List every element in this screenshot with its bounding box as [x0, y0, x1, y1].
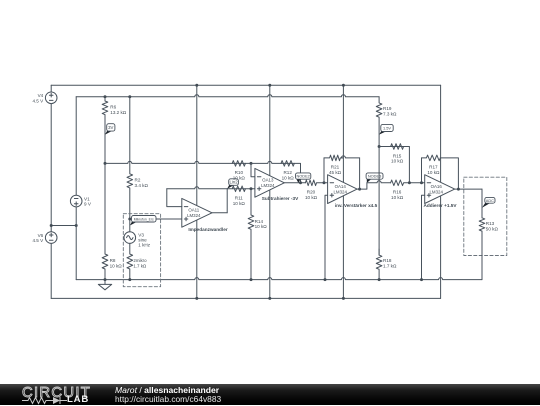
vertical rail D x=440.6 right edge, top bus corner to bottom bus corner — [440, 85, 442, 298]
wire OA16 output to ADC branch — [455, 188, 482, 190]
svg-text:R6: R6 — [110, 104, 116, 109]
op-amp OA14 LM324 triangle — [328, 175, 358, 204]
junction dot 2mikro bottom on mid bus — [128, 278, 131, 281]
label R18 — [383, 258, 397, 268]
wire OA11 output to riser — [212, 212, 227, 214]
label V4 — [32, 93, 44, 103]
resistor R11 10k horizontal — [227, 186, 245, 192]
resistor R8 10k vertical at x=105 from 3V node — [102, 163, 108, 279]
junction dot OA14 plus on mid bus — [324, 278, 327, 281]
junction dot at (51.2,225.5) — [50, 224, 53, 227]
svg-text:10 kΩ: 10 kΩ — [305, 195, 318, 200]
wire OA14 minus node to input — [324, 182, 328, 184]
wire OA11 feedback top run y=188.8 with hop at rail A — [167, 187, 227, 189]
junction dot R15 drop on R16 line — [408, 181, 411, 184]
label inv. Verstaerker — [335, 203, 378, 208]
svg-text:LM324: LM324 — [261, 183, 275, 188]
label R21 — [329, 165, 342, 175]
vertical rail A x=196.8 from top bus to bottom bus — [196, 85, 198, 298]
svg-text:4.5 V: 4.5 V — [32, 98, 44, 103]
wire V4 bottom to V6 top — [50, 104, 52, 232]
svg-text:3V: 3V — [108, 125, 113, 130]
label OA16 LM324 — [429, 184, 443, 194]
svg-text:R13: R13 — [486, 221, 495, 226]
label R15 — [391, 153, 404, 163]
resistor R13 50k vertical — [479, 213, 485, 280]
wire V1 column x=76.2: bus2top corner down to V1 top — [75, 97, 77, 196]
svg-text:R21: R21 — [331, 165, 340, 170]
wire mic node to op-amp U1 plus input, y=219 — [130, 218, 182, 220]
label Subtrahierer -3V — [262, 196, 299, 201]
label OA14 LM324 — [333, 184, 347, 194]
microphone equivalent dashed box — [123, 214, 160, 287]
svg-text:45 kΩ: 45 kΩ — [329, 170, 342, 175]
label V3 — [138, 233, 150, 248]
svg-text:NODE2: NODE2 — [296, 174, 309, 179]
svg-text:10 kΩ: 10 kΩ — [110, 264, 123, 269]
junction dot R14 bottom — [250, 278, 253, 281]
svg-text:10 kΩ: 10 kΩ — [233, 176, 246, 181]
label Addierer +1.5V — [424, 203, 458, 208]
svg-text:9 V: 9 V — [84, 202, 92, 207]
svg-text:10 kΩ: 10 kΩ — [427, 170, 440, 175]
svg-text:1.7 kΩ: 1.7 kΩ — [133, 264, 147, 269]
url text — [115, 394, 221, 404]
svg-text:R12: R12 — [283, 170, 292, 175]
svg-text:R17: R17 — [429, 165, 438, 170]
label Impedanzwandler — [188, 227, 228, 232]
label R14 — [255, 219, 268, 229]
junction dot R2 top on bus2 — [128, 95, 131, 98]
svg-text:R20: R20 — [307, 190, 316, 195]
resistor R17 10k horizontal feedback — [422, 155, 441, 161]
junction dot rail B top — [268, 84, 271, 87]
svg-text:1.7 kΩ: 1.7 kΩ — [383, 263, 397, 268]
resistor R6 13.2k vertical at x=105 — [102, 97, 108, 164]
CircuitLab logo LAB — [67, 394, 89, 405]
credit text — [115, 385, 219, 395]
junction dot OA16 plus on mid bus — [420, 278, 423, 281]
junction dot (251,163.4) — [250, 162, 253, 165]
label V1 — [84, 196, 92, 206]
label OA11 LM324 — [187, 208, 201, 218]
junction dot R17 tap — [420, 181, 423, 184]
wire R10 to junction — [245, 162, 251, 164]
resistor R12 10k horizontal — [281, 161, 294, 167]
label OA13 LM324 — [261, 178, 275, 188]
wire R12 right corner down to output — [294, 163, 300, 182]
svg-text:OA16: OA16 — [431, 184, 443, 189]
wire ADC branch down — [481, 189, 483, 218]
voltage source V4 4.5V (plus top) — [45, 92, 57, 104]
wire R21 corner down to output — [359, 158, 361, 189]
svg-text:Impedanzwandler: Impedanzwandler — [188, 227, 228, 232]
ADC dashed box — [464, 177, 507, 255]
junction dot R6 top on bus2 — [104, 95, 107, 98]
svg-text:Mikrofon_Ers: Mikrofon_Ers — [134, 217, 154, 221]
svg-text:R10: R10 — [235, 170, 244, 175]
label V6 — [32, 233, 44, 243]
label R20 — [305, 190, 318, 200]
label R16 — [391, 190, 404, 200]
svg-text:1 kHz: 1 kHz — [138, 243, 150, 248]
wire OA13 output run y=182.8 — [284, 182, 305, 184]
wire R21 line to right corner with hop at rail C — [341, 156, 359, 158]
svg-text:10 kΩ: 10 kΩ — [391, 159, 404, 164]
wire NODE3 line y=182.8 with hop over R19 branch — [367, 181, 391, 183]
net flag 3V — [105, 124, 115, 135]
svg-text:10 kΩ: 10 kΩ — [255, 224, 268, 229]
svg-text:4.5 V: 4.5 V — [32, 238, 44, 243]
resistor 2mikro 1.7k vertical — [127, 243, 133, 279]
svg-text:LM324: LM324 — [429, 189, 443, 194]
resistor R2 3.4k vertical at x=129.8 — [127, 97, 133, 219]
svg-text:OA11: OA11 — [188, 208, 199, 213]
label R17 — [427, 165, 440, 175]
wire OA14 output to NODE3 corner — [357, 183, 367, 189]
net flag NODE2 — [296, 173, 311, 183]
junction dot 3V node tee — [104, 162, 107, 165]
wire OA11 output riser up — [226, 189, 228, 213]
resistor R21 45k horizontal feedback — [324, 155, 343, 161]
net flag ADC — [482, 197, 495, 207]
label R10 — [233, 170, 246, 180]
svg-text:R16: R16 — [393, 190, 402, 195]
svg-text:R18: R18 — [383, 258, 392, 263]
voltage source V6 4.5V (plus top) — [45, 232, 57, 244]
wire top supply bus (+9V rail), y=85.3 — [51, 84, 440, 86]
voltage source V1 9V (minus top) — [70, 195, 82, 207]
junction dot rail C bottom — [342, 297, 345, 300]
resistor R19 7.3k vertical at x=379.1 — [376, 97, 382, 147]
label R19 — [383, 106, 397, 116]
junction dot OA13 output node — [299, 181, 302, 184]
junction dot R8 bottom on mid bus — [104, 278, 107, 281]
op-amp OA13 LM324 triangle — [255, 168, 284, 197]
junction dot rail C top — [342, 84, 345, 87]
wire R15 right corner down — [404, 147, 410, 183]
label R11 — [233, 196, 246, 206]
junction dot OA14 output — [358, 188, 361, 191]
junction dot R18 bottom — [378, 278, 381, 281]
wire up from minus node to R21 line — [323, 158, 325, 183]
svg-text:10 kΩ: 10 kΩ — [233, 201, 246, 206]
label 2mikro — [133, 258, 147, 268]
svg-text:LM324: LM324 — [187, 213, 201, 218]
svg-text:3.4 kΩ: 3.4 kΩ — [135, 183, 149, 188]
label R13 — [486, 221, 499, 231]
svg-text:LM324: LM324 — [333, 189, 347, 194]
svg-text:Addierer +1.5V: Addierer +1.5V — [424, 203, 458, 208]
wire V1 bottom down to mid bus corner — [75, 207, 77, 280]
svg-text:R14: R14 — [255, 219, 264, 224]
net flag Mikrofon_Ersatz — [130, 216, 156, 226]
junction dot R15 left — [378, 145, 381, 148]
resistor R18 1.7k vertical — [376, 249, 382, 280]
svg-text:Subtrahierer -3V: Subtrahierer -3V — [262, 196, 299, 201]
svg-text:R2: R2 — [135, 178, 141, 183]
wire OA16 plus input down to mid bus — [422, 195, 425, 279]
svg-text:7.3 kΩ: 7.3 kΩ — [383, 111, 397, 116]
junction dot OA16 output — [457, 188, 460, 191]
wire link V4/V6 column to V1 column, y=225.5 — [51, 225, 76, 227]
wire mid ground bus, y=279.6 with hops — [76, 278, 482, 280]
junction dot OA14 minus node — [323, 181, 326, 184]
svg-text:OA13: OA13 — [262, 178, 274, 183]
label R2 — [135, 178, 149, 188]
svg-text:50 kΩ: 50 kΩ — [486, 227, 499, 232]
resistor R15 10k horizontal — [379, 144, 404, 150]
svg-text:1.5V: 1.5V — [383, 126, 391, 131]
svg-text:ADC: ADC — [486, 198, 494, 203]
svg-text:10 kΩ: 10 kΩ — [391, 195, 404, 200]
wire left column x=51.2: bus1 corner down to V4 top — [50, 85, 52, 92]
op-amp OA16 LM324 triangle — [425, 175, 455, 204]
ground symbol below mid bus — [98, 280, 111, 290]
wire OA14 plus input down to mid bus — [325, 195, 328, 279]
svg-text:OA14: OA14 — [335, 184, 347, 189]
label R8 — [110, 258, 123, 268]
resistor R16 10k horizontal — [391, 180, 425, 186]
svg-text:inv. Verstärker x4.5: inv. Verstärker x4.5 — [335, 203, 378, 208]
label R12 — [282, 170, 295, 180]
wire V6 bottom down to bottom bus corner — [50, 243, 52, 298]
wire R12 line from junction with hop at rail B — [251, 161, 281, 163]
wire bottom negative bus, y=298.4 — [51, 297, 440, 299]
svg-text:R15: R15 — [393, 153, 402, 158]
op-amp OA11 LM324 triangle — [182, 198, 212, 227]
resistor R20 10k horizontal — [305, 180, 324, 186]
wire drop to OA13 minus input — [251, 163, 255, 176]
svg-text:R11: R11 — [235, 196, 244, 201]
wire OA11 minus input feedback: left and up — [167, 189, 182, 207]
wire R17 feedback loop up — [421, 158, 423, 183]
logo resistor-diode squiggle — [22, 396, 72, 406]
vertical rail C x=343.4 from top bus to bottom bus — [342, 85, 344, 298]
sine source V3 1kHz — [124, 232, 136, 244]
net flag NODE3 — [366, 173, 383, 183]
resistor R14 10k vertical at x=251 — [248, 189, 254, 280]
svg-text:10 kΩ: 10 kΩ — [282, 176, 295, 181]
wire second top bus (+4.5V), y=96.7 with hops over vertical rails — [76, 95, 379, 97]
label R6 — [110, 104, 127, 114]
wire R10 line y=163.4 from 3V node tee with hops — [105, 161, 232, 163]
junction dot rail B bottom — [268, 297, 271, 300]
wire R11 to OA13 plus input — [245, 188, 255, 190]
net flag Lin2 — [227, 179, 238, 189]
junction dot mic node — [128, 218, 131, 221]
svg-text:R19: R19 — [383, 106, 392, 111]
junction dot at (76.2,225.5) — [75, 224, 78, 227]
wire R19 branch continues down to R18 — [378, 147, 380, 256]
junction dot rail A bottom — [195, 297, 198, 300]
svg-text:13.2 kΩ: 13.2 kΩ — [110, 110, 127, 115]
svg-text:2mikro: 2mikro — [133, 258, 147, 263]
junction dot (251,188.8) — [250, 187, 253, 190]
svg-text:R8: R8 — [110, 258, 116, 263]
vertical rail B x=269.8 from top bus to bottom bus — [269, 85, 271, 298]
wire V3 to mic node — [129, 219, 131, 232]
junction dot rail A top — [195, 84, 198, 87]
resistor R10 10k horizontal — [232, 161, 245, 167]
wire R17 right corner down to output — [440, 158, 458, 189]
CircuitLab logo CIRCUIT — [22, 385, 91, 401]
net flag 1.5V — [379, 124, 393, 134]
